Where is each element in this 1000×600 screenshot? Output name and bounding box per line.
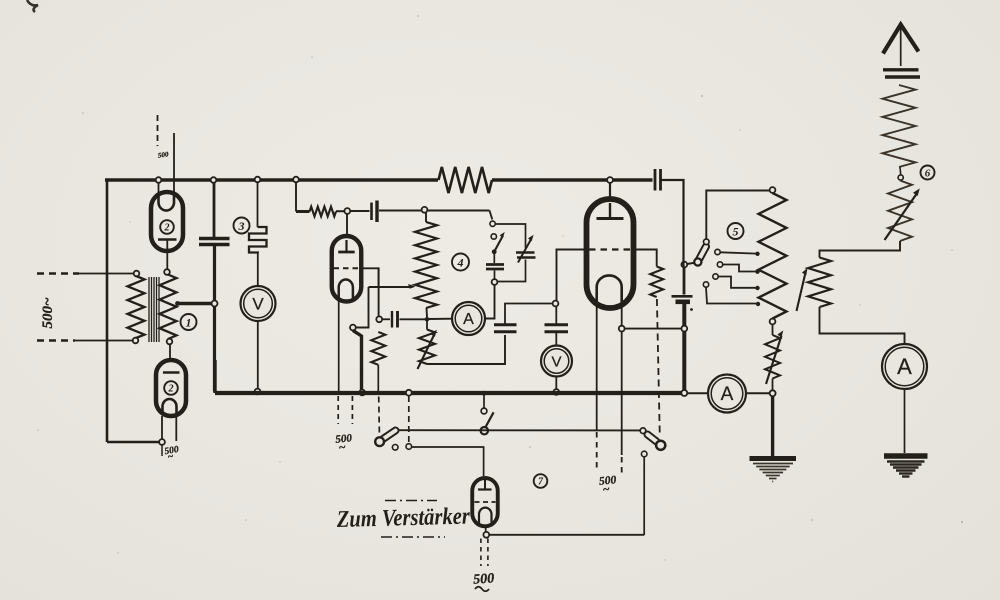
node R5 bottom — [770, 319, 776, 325]
switch S-shunt fixed contact — [491, 234, 496, 239]
node R6a-R6b junction — [898, 175, 903, 180]
label 2 (circled, top tube) — [160, 220, 174, 234]
wire filament dashed below bus (right) — [351, 396, 353, 424]
wire top supply bus right segment — [492, 178, 653, 182]
wire cathode jog to lower bus (thick) — [353, 330, 362, 390]
variable resistor R-reg below pot — [419, 330, 435, 365]
capacitor C-ant bottom plate — [885, 75, 920, 78]
wire secondary center tap (thick) — [177, 302, 212, 305]
svg-text:7: 7 — [538, 477, 544, 488]
tube V3 filament lead left — [596, 306, 598, 430]
wire dash-dot below label — [381, 536, 445, 538]
wire filament dashed left — [596, 432, 598, 470]
switch S-shunt pivot — [492, 249, 497, 254]
switch left lever ring — [375, 437, 384, 446]
svg-text:A: A — [463, 311, 474, 328]
wire tap1 to R5 — [720, 252, 756, 253]
tube V2b filament lead right — [175, 416, 177, 441]
capacitor C-shunt plates — [486, 265, 504, 270]
svg-text:6: 6 — [925, 167, 931, 179]
label 3 (circled) — [234, 218, 250, 234]
switch S5 tap contact 3 — [713, 274, 718, 279]
capacitor C-couple right plate — [375, 201, 378, 223]
node filament tie on ground column — [681, 326, 687, 332]
node A1 shunt junction — [492, 279, 498, 285]
label 500~ below tube V4 — [473, 571, 495, 591]
wire R5 bottom to var resistor — [772, 325, 774, 336]
voltmeter V2 — [541, 346, 572, 377]
junction dot tap1 — [755, 252, 759, 256]
junction dot tap2 — [755, 270, 759, 274]
wire corner down to switch contact — [490, 211, 493, 220]
switch contact lower row right — [406, 444, 412, 450]
junction dot at A1 feed — [425, 317, 430, 322]
wire filament node to ground column — [625, 328, 682, 330]
wire C-grid2 to voltmeter V2 — [555, 332, 557, 346]
wire pivot to cap — [493, 253, 495, 263]
tube V2a anode bar — [158, 238, 177, 241]
svg-text:3: 3 — [238, 219, 245, 233]
wire node to C-shunt — [494, 271, 496, 280]
speck near trimmer — [690, 308, 693, 311]
variable resistor R-meter below R5 — [765, 335, 780, 379]
svg-text:1: 1 — [186, 315, 192, 329]
wire grid to wiper arrow — [369, 286, 410, 288]
tube V4 dash-dot middle — [475, 501, 496, 503]
node potentiometer-4 top feed — [422, 207, 428, 213]
wire dropper to meter V1 — [257, 253, 259, 287]
node grid-feed on top bus — [293, 177, 299, 183]
antenna arrow head — [883, 25, 919, 54]
wire C-block up and right to grid node — [505, 304, 553, 325]
wire dash-dot filament supply — [157, 115, 159, 146]
wire anode lead of tube V1 — [346, 214, 348, 238]
node secondary bottom — [167, 339, 173, 345]
node anode junction — [344, 208, 350, 214]
wire dash cathode to left lever — [378, 397, 381, 435]
switch S5 pivot ring — [694, 258, 701, 265]
junction dot tap3 — [755, 286, 759, 290]
ammeter A2 — [708, 375, 746, 413]
wire S5 contact to R5 top — [706, 191, 769, 239]
wire to resistor (thick stub) — [296, 210, 310, 213]
capacitor C-series in top bus (left plate) — [654, 169, 657, 191]
wire A1 right lead — [485, 285, 495, 319]
wire top bus after series capacitor — [662, 180, 684, 262]
node C3 top on bus — [211, 177, 217, 183]
variable resistor R6b body — [888, 181, 912, 242]
arrow through R-meter — [766, 330, 783, 384]
tube V1 filament loop — [339, 280, 353, 302]
junction dot middle switch on bus — [482, 391, 487, 396]
arrow through C-var — [518, 235, 534, 263]
wire junction to R-reg — [426, 319, 428, 329]
switch S5 pivot link — [687, 263, 696, 265]
label 1 (circled) — [181, 314, 197, 330]
node primary top — [134, 271, 140, 277]
wire bus corner to trimmer (upper) — [682, 262, 684, 267]
tube V2a envelope — [151, 192, 183, 251]
wire junction to ammeter A1 — [429, 318, 453, 320]
tube V2a anode lead — [166, 240, 168, 269]
wire C-gridleak to A1 junction — [400, 318, 426, 320]
wire ground junction down (thick) — [771, 396, 774, 456]
node big-tube grid junction — [553, 301, 559, 307]
wire lower row to tube V4 grid — [412, 447, 484, 476]
capacitor C3 bottom plate — [199, 243, 230, 246]
node ground column at bus end — [681, 390, 687, 396]
switch S5 tap contact 2 — [717, 262, 722, 267]
node V1 bottom on bus — [255, 389, 261, 395]
label 7 (circled) — [534, 474, 548, 488]
label tiny 500 near filament leads — [157, 150, 169, 159]
switch right lever — [648, 435, 657, 442]
tube V3 grid dashed — [589, 248, 631, 250]
capacitor C-gridleak left plate — [391, 311, 393, 328]
resistor R-grid horizontal — [310, 207, 337, 217]
resistor meander dropper R-V1 — [249, 227, 267, 253]
wire relay row upper — [398, 429, 641, 431]
tube V2b envelope — [156, 360, 186, 416]
label 500~ below tube V1 — [335, 432, 353, 454]
svg-text:500~: 500~ — [40, 297, 56, 329]
transformer T1 primary winding — [128, 276, 145, 338]
tube V1 filament lead left — [338, 301, 340, 392]
wire filament V4 dashed — [481, 539, 488, 567]
wire bus down to grid resistor — [295, 182, 297, 212]
wire R-cathode to bus — [377, 365, 379, 392]
potentiometer R4 body — [415, 222, 437, 308]
svg-text:500: 500 — [157, 150, 169, 159]
wire bottom bus thick left riser — [213, 360, 216, 393]
tube V4 grid bar — [478, 479, 492, 490]
wire grid exit right to R-grid2 — [632, 250, 657, 267]
junction dot center tap — [175, 301, 180, 306]
node cathode junction tube V1 — [350, 325, 356, 331]
node upper-row feed on bus — [406, 390, 412, 396]
resistor R-grid2 vertical — [650, 267, 663, 298]
wire R-reg bottom to C-block — [427, 335, 505, 364]
switch S-mid lever — [485, 412, 493, 427]
tube V2b filament lead left — [161, 416, 163, 440]
node V1 column top on bus — [255, 177, 261, 183]
wire tube V4 bottom lead — [485, 526, 487, 532]
switch S5 tap contact 1 — [715, 249, 720, 254]
wire bus stub to contact — [483, 396, 485, 409]
switch S5 tap contact 4 — [703, 282, 708, 287]
wire pot bottom to junction — [426, 308, 429, 317]
ground G2 bar — [884, 453, 928, 459]
ground G1 hatching — [753, 464, 793, 482]
wire stub below node — [161, 445, 163, 456]
tube V2b grid/anode bar — [163, 371, 180, 374]
trimmer capacitor top bar — [672, 295, 693, 298]
tube V3 filament lead right — [621, 306, 623, 455]
wire V1 to bottom bus — [257, 321, 259, 389]
node big tube anode on top bus — [607, 177, 613, 183]
svg-text:Zum Verstärker: Zum Verstärker — [336, 504, 471, 534]
tube V4 envelope — [472, 478, 498, 526]
wire trimmer to bottom bus (thick) — [682, 304, 686, 391]
node primary bottom — [133, 338, 139, 344]
tube V2b filament loop — [163, 399, 177, 413]
svg-text:V: V — [252, 294, 264, 313]
node filament-bus junction — [156, 177, 162, 183]
svg-text:5: 5 — [733, 224, 739, 238]
arrow through R6b — [885, 188, 920, 240]
resistor R-top in supply bus — [439, 167, 493, 193]
trimmer capacitor bottom slab — [676, 299, 691, 304]
node cathode-bus junction — [359, 390, 365, 396]
wire filament lead right (to 500 supply) — [173, 133, 175, 196]
wire grid exit left to junction — [557, 250, 589, 301]
wire C-var to node — [498, 260, 526, 282]
node cathode return junction — [159, 439, 165, 445]
label Zum Verstärker — [336, 504, 471, 534]
resistor R-cathode vertical — [371, 332, 385, 365]
label 500~ below tube V2b — [164, 445, 180, 463]
wire bottom-left horizontal to tube cathode node — [107, 441, 160, 444]
wire filament lead left to bus — [158, 180, 160, 196]
wire junction jog to cathode node — [356, 287, 369, 328]
label 4 (circled) — [452, 254, 469, 271]
tube V1 envelope — [332, 236, 362, 302]
wire dash-dot above label — [385, 500, 437, 502]
wire var resistor to A-meter wire — [772, 379, 774, 391]
resistor R6a body — [883, 85, 916, 167]
voltmeter V1 — [241, 286, 276, 321]
label 2 (circled, bottom tube) — [164, 381, 178, 395]
wire V2 to bottom bus — [555, 377, 557, 390]
wire dashed 500Hz input upper — [37, 272, 133, 274]
wire tap3 to R5 — [718, 277, 756, 288]
capacitor C-block plates — [494, 325, 517, 332]
svg-text:V: V — [551, 353, 561, 370]
svg-text:A: A — [721, 384, 734, 405]
wire left frame vertical — [106, 180, 109, 442]
switch right contact — [641, 451, 647, 457]
node R5 top — [770, 187, 776, 193]
wire bus to capacitor C3 — [213, 180, 216, 237]
wire grid branch down to cap node — [378, 268, 380, 316]
wire output row right — [489, 534, 644, 536]
capacitor C-couple left plate — [370, 203, 373, 221]
wire dash-dot R-grid2 to switch lever — [657, 299, 660, 437]
switch S-shunt feed contact — [490, 221, 495, 226]
switch S-mid contact — [481, 408, 487, 414]
node ground junction — [770, 390, 776, 396]
svg-text:500: 500 — [473, 571, 495, 587]
wire top supply bus left segment — [105, 178, 438, 182]
switch S5 lever — [699, 247, 706, 260]
label 500~ source (rotated) — [40, 297, 56, 329]
wire anode node to coupling cap — [350, 210, 370, 212]
wire contact down to output row — [643, 457, 645, 535]
wire coupling cap to pot top wire — [379, 210, 490, 212]
label 500~ below tube V3 — [598, 474, 617, 496]
node output junction — [483, 532, 489, 538]
capacitor C-grid2 plates — [545, 325, 569, 332]
wire node to C-grid2 — [555, 307, 557, 325]
variable capacitor C-var plates — [516, 253, 536, 258]
node V2 on bottom bus — [553, 389, 559, 395]
ground G1 bar — [750, 456, 797, 461]
junction dot tap4 — [756, 302, 760, 306]
tube V1 anode bar — [338, 240, 355, 252]
scan artifact top-left — [27, 0, 38, 12]
node filament-right junction — [619, 326, 625, 332]
wire filament dashed below bus (left) — [337, 396, 339, 424]
transformer T1 secondary winding — [160, 275, 177, 340]
wire tap2 to R5 — [723, 265, 757, 272]
wire A2 to ground node — [746, 392, 770, 394]
switch contact lower row left — [392, 445, 398, 451]
tube V3 envelope — [587, 199, 634, 308]
wire R-mid bottom to ammeter A3 — [820, 307, 905, 344]
capacitor C-ant top plate — [883, 68, 919, 71]
antenna arrow stem — [900, 26, 902, 66]
wire R6b bottom to mid resistor — [820, 241, 901, 258]
wire A3 to ground — [904, 389, 906, 453]
wire anode lead big tube — [609, 182, 611, 201]
label 5 (circled) — [728, 223, 744, 239]
resistor R-mid body — [808, 258, 831, 308]
ammeter A1 — [452, 302, 485, 335]
node grid-leak junction — [376, 316, 382, 322]
wire bottom bus (thick) — [215, 391, 684, 395]
wire secondary bottom to tube V2b — [169, 344, 171, 361]
node transformer tap junction — [212, 301, 218, 307]
node secondary top (to tube V2a cathode) — [164, 269, 170, 275]
svg-text:4: 4 — [457, 255, 464, 269]
switch S5 top contact — [704, 239, 710, 245]
wiper arrow into potentiometer 4 — [408, 284, 416, 289]
wire tap4 to R5 — [706, 287, 757, 303]
capacitor C-series in top bus (right plate) — [659, 169, 662, 191]
label 6 (circled) — [921, 166, 935, 180]
wire filament dashed right — [621, 457, 623, 477]
node lever feed junction — [681, 262, 687, 268]
wire grid exit right — [360, 268, 379, 287]
wire bus down to dropper — [257, 182, 259, 227]
wire R6a bottom — [899, 167, 902, 175]
tube V4 filament loop — [479, 508, 492, 525]
svg-text:2: 2 — [164, 223, 170, 234]
wire dash bus to contact row — [408, 396, 410, 443]
svg-text:A: A — [897, 354, 912, 379]
wire bus end to ammeter A2 — [687, 392, 708, 394]
wiper arrow at R-mid — [797, 268, 808, 311]
arrow through R-reg — [418, 330, 437, 369]
wire node to C-gridleak — [382, 318, 390, 320]
wire C3 to lower bus (thick) — [213, 246, 216, 392]
resistor R5 tapped body — [759, 193, 787, 319]
ground G2 hatching — [887, 462, 925, 477]
wire junction down to trimmer — [683, 268, 686, 295]
switch S-mid pivot ring — [481, 427, 488, 434]
wire pot top lead — [425, 213, 427, 223]
capacitor C-gridleak right plate — [396, 311, 399, 328]
wire shunt loop to trimmer branch — [495, 224, 525, 248]
wire dashed 500Hz input lower — [37, 339, 132, 341]
switch right lever end circle — [640, 428, 646, 434]
capacitor C3 top plate — [199, 237, 230, 240]
switch left lever — [383, 431, 396, 440]
tube V2a filament loop — [159, 195, 175, 211]
tube V1 grid (dashed) — [334, 267, 360, 269]
tube V3 anode bar — [597, 203, 624, 219]
switch S-shunt lever — [494, 232, 505, 252]
ammeter A3 — [882, 344, 927, 389]
transformer T1 core — [149, 277, 159, 342]
switch right lever ring — [656, 441, 665, 450]
tube V3 filament loop — [597, 275, 622, 306]
wire resistor to anode node — [336, 210, 345, 212]
svg-text:2: 2 — [168, 384, 174, 395]
